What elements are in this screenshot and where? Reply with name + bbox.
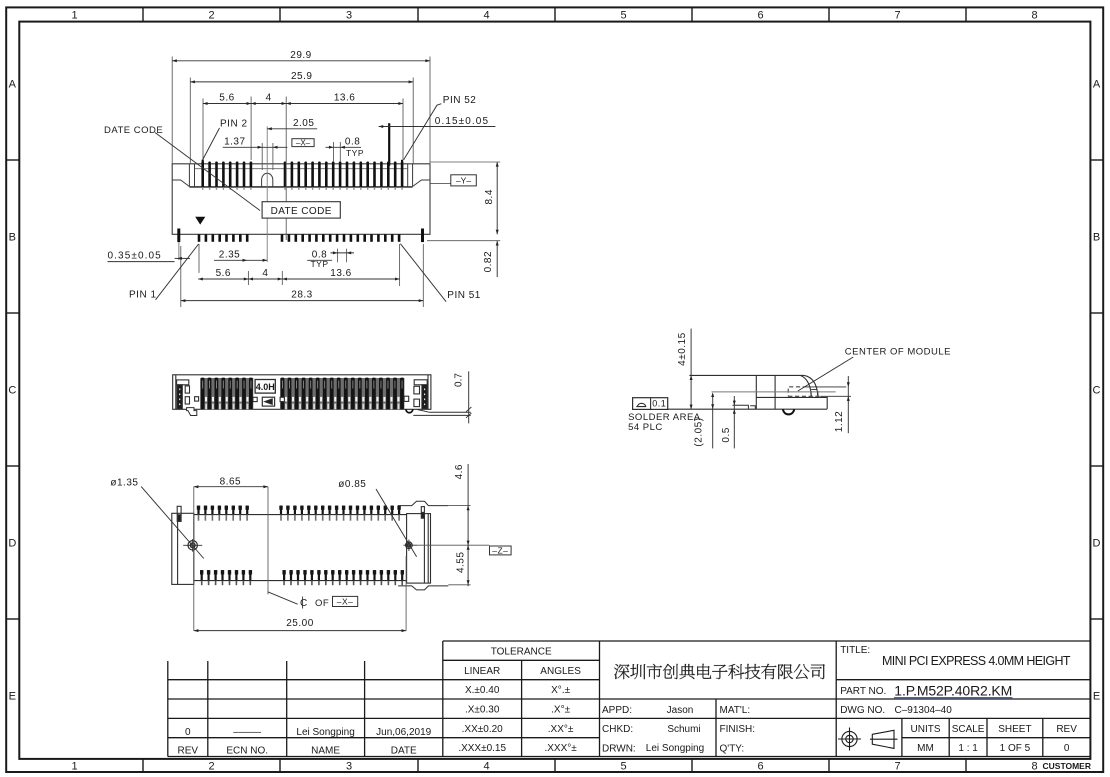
svg-text:1.37: 1.37 <box>224 136 245 147</box>
units/scale/sheet/rev column dividers <box>901 718 903 756</box>
svg-text:5.6: 5.6 <box>219 93 234 104</box>
svg-text:Jun,06,2019: Jun,06,2019 <box>376 727 431 738</box>
svg-text:DATE: DATE <box>391 746 417 757</box>
pin 52 extended lead <box>401 160 403 165</box>
svg-text:.XXX±0.15: .XXX±0.15 <box>458 743 506 754</box>
extension lines for dims <box>172 57 430 164</box>
svg-text:0.35±0.05: 0.35±0.05 <box>108 250 162 261</box>
svg-text:13.6: 13.6 <box>334 93 355 104</box>
leader dia1.35 <box>141 487 204 559</box>
dim 0.8 typ (bottom) <box>307 259 332 261</box>
svg-text:0: 0 <box>185 727 191 738</box>
svg-text:.XX°±: .XX°± <box>548 724 574 735</box>
leader PIN 51 <box>400 244 446 302</box>
right top tab <box>421 507 424 519</box>
svg-text:–X–: –X– <box>296 138 311 147</box>
svg-text:0.1: 0.1 <box>652 399 666 409</box>
solid extension lines right <box>807 387 851 396</box>
svg-text:13.6: 13.6 <box>330 268 351 279</box>
dim 5.6 / 4 / 13.6 (bottom) <box>198 278 248 280</box>
dim 0.5 <box>733 396 735 448</box>
left top tab <box>177 506 181 521</box>
svg-text:28.3: 28.3 <box>291 290 312 301</box>
hole target right (dia 0.85) <box>406 542 413 549</box>
svg-text:X°.±: X°.± <box>551 685 570 696</box>
svg-text:DATE CODE: DATE CODE <box>104 125 163 136</box>
svg-text:8.4: 8.4 <box>484 189 495 204</box>
svg-text:B: B <box>1093 232 1100 244</box>
front view body outline <box>173 375 431 410</box>
svg-text:.XX±0.20: .XX±0.20 <box>462 724 504 735</box>
svg-text:25.9: 25.9 <box>291 71 312 82</box>
svg-text:4.55: 4.55 <box>455 552 466 573</box>
bottom round boss <box>783 409 794 414</box>
svg-text:NAME: NAME <box>311 746 340 757</box>
svg-text:–Z–: –Z– <box>492 545 508 555</box>
svg-text:3: 3 <box>346 761 352 773</box>
svg-text:CHKD:: CHKD: <box>602 724 633 735</box>
svg-text:X.±0.40: X.±0.40 <box>465 685 500 696</box>
svg-text:.X±0.30: .X±0.30 <box>465 705 500 716</box>
right solder tab <box>421 229 424 243</box>
svg-text:Schumi: Schumi <box>667 724 700 735</box>
svg-text:25.00: 25.00 <box>286 618 314 629</box>
dim 0.7 <box>468 371 470 423</box>
dim 8.65 <box>194 486 268 488</box>
leader center of module <box>798 357 854 391</box>
leader centerline note <box>268 592 298 604</box>
DATE CODE box <box>262 202 340 218</box>
svg-text:1.P.M52P.40R2.KM: 1.P.M52P.40R2.KM <box>894 682 1012 698</box>
front view right foot (round) <box>406 409 413 412</box>
slot top line <box>195 168 408 170</box>
dim 4+-0.15 <box>690 329 692 410</box>
nose latch arcs <box>800 375 818 396</box>
svg-text:8.65: 8.65 <box>220 476 241 487</box>
front view right latch structure <box>414 380 427 385</box>
module center gray line <box>712 391 836 393</box>
svg-text:54 PLC: 54 PLC <box>628 422 663 433</box>
svg-text:1: 1 <box>71 761 77 773</box>
dim 1.12 <box>847 376 849 433</box>
svg-text:PIN 1: PIN 1 <box>129 290 157 301</box>
svg-text:UNITS: UNITS <box>911 724 941 735</box>
svg-text:FINISH:: FINISH: <box>720 724 756 735</box>
solder plane line <box>668 408 828 410</box>
svg-text:DRWN:: DRWN: <box>602 743 636 754</box>
leader dia0.85 <box>376 489 417 557</box>
datum -Y- box <box>430 183 450 185</box>
part number blue underline <box>894 697 1012 699</box>
svg-text:ECN NO.: ECN NO. <box>226 746 268 757</box>
svg-text:PART NO.: PART NO. <box>840 686 886 697</box>
small mount square left of logo <box>253 397 257 401</box>
svg-text:4: 4 <box>483 761 489 773</box>
svg-text:.X°±: .X°± <box>551 705 570 716</box>
pin 2 extended lead <box>202 160 204 165</box>
svg-text:6: 6 <box>757 10 763 22</box>
solder area symbol <box>633 398 668 410</box>
svg-text:E: E <box>9 691 16 703</box>
svg-text:D: D <box>1093 538 1101 550</box>
svg-text:D: D <box>8 538 16 550</box>
svg-text:APPD:: APPD: <box>602 705 632 716</box>
dim 25.00 <box>194 630 406 632</box>
revision table vertical lines (open top) <box>167 661 169 757</box>
svg-text:6: 6 <box>757 761 763 773</box>
svg-text:4±0.15: 4±0.15 <box>677 332 688 366</box>
leader DATE CODE <box>155 133 260 211</box>
svg-text:Q'TY:: Q'TY: <box>720 743 745 754</box>
svg-text:A: A <box>1093 79 1101 91</box>
8.4 and 0.82 extensions <box>427 162 500 241</box>
key centerline <box>266 126 268 262</box>
svg-text:LINEAR: LINEAR <box>464 666 500 677</box>
svg-text:2.05: 2.05 <box>293 118 314 129</box>
front view pins <box>201 378 205 410</box>
svg-text:7: 7 <box>894 761 900 773</box>
svg-text:0.5: 0.5 <box>721 427 732 442</box>
logo box <box>262 397 274 406</box>
zone column tick marks <box>142 7 144 21</box>
svg-text:2.35: 2.35 <box>219 249 240 260</box>
4.0H marking box <box>255 380 275 394</box>
top view body outline <box>172 164 430 235</box>
white dots on left bar <box>179 389 180 391</box>
svg-text:29.9: 29.9 <box>290 50 311 61</box>
dim 28.3 <box>181 300 423 302</box>
0.8 typ tick extensions (bottom) <box>338 249 347 263</box>
svg-text:0: 0 <box>1064 743 1070 754</box>
horizontal rules <box>168 679 1091 681</box>
bottom view upper pin combs <box>197 506 200 510</box>
svg-text:1: 1 <box>71 10 77 22</box>
1.37 tick extensions <box>262 143 273 170</box>
svg-text:2: 2 <box>208 10 214 22</box>
solder tail extending right <box>413 410 470 416</box>
leader PIN 2 <box>203 128 220 160</box>
top view lower pin row (pins 1-51 odd) <box>198 234 201 242</box>
dim 0.15+-0.05 <box>379 126 496 128</box>
bottom right ear outline <box>398 586 448 590</box>
svg-text:Lei Songping: Lei Songping <box>646 743 704 754</box>
front view left foot <box>187 408 197 416</box>
body top and bottom lines <box>194 514 407 516</box>
svg-text:4.0H: 4.0H <box>256 382 275 392</box>
svg-text:4: 4 <box>262 268 268 279</box>
hole target left (dia 1.35) <box>188 541 197 550</box>
top view band bottom line <box>189 186 412 188</box>
svg-text:–Y–: –Y– <box>456 175 471 185</box>
svg-text:4.6: 4.6 <box>454 464 465 479</box>
pin 1 indicator triangle <box>195 217 205 225</box>
svg-text:8: 8 <box>1031 10 1037 22</box>
bottom view left cap <box>172 513 194 584</box>
svg-text:5: 5 <box>620 10 626 22</box>
datum -Z- box <box>490 546 512 555</box>
svg-text:TITLE:: TITLE: <box>840 645 870 656</box>
svg-text:DATE CODE: DATE CODE <box>271 206 332 217</box>
svg-text:PIN 2: PIN 2 <box>220 118 248 129</box>
svg-text:C: C <box>1093 385 1101 397</box>
leader PIN 52 <box>404 104 442 160</box>
svg-text:0.7: 0.7 <box>454 373 465 387</box>
raised contact pin for 0.15 dim <box>388 123 390 166</box>
datum -X- box <box>292 139 314 147</box>
contact window slots <box>205 397 207 402</box>
svg-text:PIN 51: PIN 51 <box>447 290 481 301</box>
svg-text:C–91304–40: C–91304–40 <box>895 705 953 716</box>
svg-text:7: 7 <box>894 10 900 22</box>
title block outline <box>443 640 1091 642</box>
svg-text:0.15±0.05: 0.15±0.05 <box>435 116 489 127</box>
svg-text:Lei Songping: Lei Songping <box>296 727 354 738</box>
dim 0.8 typ (top) <box>326 146 362 148</box>
svg-text:ø0.85: ø0.85 <box>338 479 366 490</box>
svg-text:PIN 52: PIN 52 <box>443 95 477 106</box>
company name (CJK glyph outlines) <box>614 664 825 679</box>
module card dashed outline <box>788 387 820 396</box>
-Z- datum line <box>417 544 489 546</box>
svg-text:TYP: TYP <box>346 148 364 158</box>
svg-text:8: 8 <box>1031 761 1037 773</box>
first angle projection compass symbol <box>838 728 898 751</box>
svg-text:REV: REV <box>178 746 199 757</box>
svg-text:OF: OF <box>315 598 329 609</box>
small mount square right of logo <box>280 397 284 401</box>
svg-text:.XXX°±: .XXX°± <box>544 743 577 754</box>
top view right end cap <box>408 164 430 187</box>
svg-text:5: 5 <box>620 761 626 773</box>
projection cone symbol <box>872 730 894 748</box>
top view upper pin row (pins 2-52 even) <box>201 162 204 188</box>
bottom dim extensions <box>181 244 423 307</box>
polarization key notch <box>262 173 273 187</box>
front view left wall <box>175 375 177 410</box>
svg-text:MAT'L:: MAT'L: <box>720 705 751 716</box>
zone row tick marks <box>6 159 19 161</box>
svg-text:CUSTOMER: CUSTOMER <box>1043 761 1092 771</box>
svg-text:ANGLES: ANGLES <box>540 666 581 677</box>
front view left latch structure <box>177 380 189 385</box>
side view body <box>689 375 804 409</box>
svg-text:CENTER OF MODULE: CENTER OF MODULE <box>845 346 951 357</box>
svg-text:DWG NO.: DWG NO. <box>840 705 885 716</box>
svg-text:1 OF 5: 1 OF 5 <box>1000 743 1031 754</box>
svg-text:C: C <box>8 385 16 397</box>
dim 25.9 <box>190 81 413 83</box>
dim (2.05) <box>712 394 714 449</box>
svg-text:–––––: ––––– <box>233 727 261 738</box>
svg-text:ø1.35: ø1.35 <box>110 478 138 489</box>
svg-text:TYP: TYP <box>310 259 328 269</box>
svg-text:C: C <box>300 598 307 609</box>
svg-text:TOLERANCE: TOLERANCE <box>491 647 552 658</box>
dim 29.9 <box>172 60 430 62</box>
svg-text:0.8: 0.8 <box>345 136 360 147</box>
tolerance table inner lines <box>443 659 600 661</box>
dim 8.4 <box>496 162 498 234</box>
svg-text:REV: REV <box>1056 724 1077 735</box>
svg-text:1 : 1: 1 : 1 <box>958 743 978 754</box>
svg-text:4: 4 <box>266 93 272 104</box>
svg-text:–X–: –X– <box>337 597 354 607</box>
svg-text:E: E <box>1093 691 1100 703</box>
svg-text:B: B <box>9 232 16 244</box>
dim 0.82 <box>496 241 498 277</box>
svg-text:Jason: Jason <box>667 705 694 716</box>
dim 5.6 / 4 / 13.6 (top) <box>203 103 251 105</box>
top view left end cap <box>172 164 194 187</box>
svg-text:SCALE: SCALE <box>952 724 985 735</box>
svg-text:3: 3 <box>346 10 352 22</box>
svg-text:MINI PCI EXPRESS 4.0MM HEI: MINI PCI EXPRESS 4.0MM HEIGHT <box>882 654 1071 668</box>
svg-text:A: A <box>9 79 17 91</box>
left solder tab <box>177 229 180 243</box>
solder tail step <box>733 405 756 409</box>
svg-text:2: 2 <box>208 761 214 773</box>
top right ear outline <box>398 501 448 505</box>
0.8 typ tick extensions (top) <box>334 142 341 161</box>
svg-text:5.6: 5.6 <box>216 268 231 279</box>
lower block <box>756 397 827 409</box>
bottom view right cap <box>407 514 431 584</box>
dim 0.35+-0.05 <box>108 261 175 263</box>
dim 2.05 <box>267 128 317 130</box>
svg-text:0.82: 0.82 <box>483 251 494 272</box>
dim 4.6 / 4.55 <box>467 464 469 586</box>
bottom view extension lines <box>194 487 406 631</box>
svg-text:MM: MM <box>917 743 934 754</box>
bottom view lower pin combs <box>200 570 203 574</box>
white dots on right bar <box>424 389 425 391</box>
front view pin field backgrounds <box>200 378 253 409</box>
dim 2.35 <box>214 259 267 261</box>
svg-text:1.12: 1.12 <box>834 411 845 432</box>
svg-text:SHEET: SHEET <box>998 724 1031 735</box>
leader PIN 1 <box>156 244 199 300</box>
material/finish column divider <box>715 699 717 757</box>
svg-text:4: 4 <box>483 10 489 22</box>
svg-text:SOLDER AREA: SOLDER AREA <box>628 412 701 423</box>
dim 1.37 <box>223 146 288 148</box>
